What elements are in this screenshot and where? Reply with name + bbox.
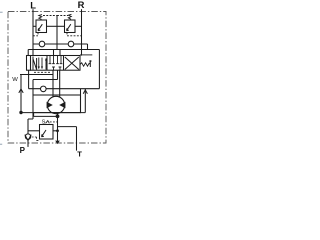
- svg-text:R: R: [78, 0, 85, 10]
- node: junction dot at (57.5,130.8): [56, 129, 59, 132]
- wire: V1 left port: [33, 25, 36, 27]
- wire: valve S left port: [28, 130, 40, 132]
- relief valve V1 spring: [39, 15, 42, 20]
- relief valve V2 body: [65, 20, 76, 33]
- svg-text:S: S: [42, 120, 46, 126]
- wire: center vertical node line x=57: [56, 16, 58, 50]
- wire: hang line x=85.3 with flow arrow: [84, 89, 86, 113]
- wire: bottom manifold y=112.6: [21, 112, 85, 114]
- wire: V2 right port: [75, 25, 82, 27]
- wire: motor feed line A x=53: [52, 70, 54, 97]
- node: junction dot at (21,112.6): [19, 111, 22, 114]
- motor triangle left: [47, 102, 53, 108]
- wire: link x=87.5 between y44 and y49.5: [87, 44, 89, 50]
- DV right box crossed arrows: [65, 57, 79, 70]
- DV drain dashes below body: [34, 71, 51, 73]
- DV middle box blocked ports comb: [50, 56, 61, 64]
- motor triangle right: [59, 102, 65, 108]
- wire stub at left image edge bottom: [0, 143, 2, 145]
- svg-text:T: T: [77, 149, 82, 158]
- node: junction dot at (57.5,116.4): [56, 114, 60, 118]
- wire: T branch: [58, 127, 77, 151]
- wire: P line through boundary: [27, 141, 29, 147]
- orifice O2: [68, 41, 74, 47]
- relief valve V1 pilot line (dashed, to center): [43, 15, 57, 17]
- wire: P riser jog: [28, 113, 33, 135]
- directional valve DV box divider 1: [46, 56, 48, 71]
- drain arrow down: [55, 141, 60, 145]
- orifice O3: [41, 86, 47, 92]
- svg-text:W: W: [12, 77, 18, 83]
- valve S pilot dashed to x=57.5: [50, 121, 58, 123]
- valve S drain pilot dashed (lower left): [32, 137, 40, 141]
- directional valve DV main body: [31, 56, 81, 71]
- orifice O1: [39, 41, 45, 47]
- svg-text:L: L: [30, 0, 36, 11]
- valve S spring: [46, 121, 50, 124]
- wire: hang line x=80.5: [80, 89, 82, 113]
- wire: left cap drain to shuttle: [28, 70, 30, 89]
- wire: cross line y=44: [33, 43, 88, 45]
- wire: case drain sub line y=116.4: [34, 113, 58, 117]
- wire: valve top port stub B: [59, 50, 61, 56]
- relief valve V1 internal arrow: [38, 24, 42, 30]
- motor M circle: [47, 96, 64, 113]
- enclosure boundary (dash-dot frame): [8, 12, 106, 144]
- wire: pilot rail y=49.5: [28, 49, 99, 51]
- wire: L line vertical x=33: [32, 9, 34, 55]
- relief valve V2 pilot line (dashed, to center): [57, 15, 68, 17]
- flow arrow on x=85.3: [83, 90, 87, 94]
- wire: W drop vertical x=21 with flow arrow: [20, 75, 22, 113]
- wire: valve S right port: [53, 130, 58, 132]
- relief valve V2 internal arrow: [67, 24, 71, 30]
- wire: R line vertical x=81.5: [81, 9, 83, 55]
- wire: W drain line: [20, 74, 53, 76]
- wire: valve top port stub A: [53, 50, 55, 56]
- wire: V1 right port: [47, 25, 58, 27]
- flow arrow on W line: [19, 89, 23, 93]
- DV left box check symbol: [33, 57, 37, 70]
- valve S internal arrow: [42, 130, 47, 137]
- DV spring end bar: [89, 61, 91, 68]
- flushing relief valve S body: [40, 125, 54, 140]
- wire: valve bottom port to tee x=57.5: [57, 70, 59, 79]
- wire stub at left image edge top: [0, 11, 3, 13]
- relief valve V2 drain pilot (dashed to R line): [67, 33, 82, 36]
- check valve ball: [25, 134, 30, 139]
- wire: motor feed line B x=59.7: [59, 70, 61, 97]
- check valve seat: [25, 135, 31, 141]
- directional valve DV box divider 2: [63, 56, 65, 71]
- wire: tee line y=79.5: [33, 79, 58, 81]
- DV left box flow arrows: [39, 58, 46, 70]
- wire: flushing drop x=57.5: [57, 113, 59, 141]
- svg-text:P: P: [20, 146, 26, 155]
- DV spring cap top line: [80, 54, 92, 56]
- wire: V2 left port: [57, 25, 65, 27]
- wire: right pilot drop x=99.4: [98, 50, 100, 89]
- relief valve V1 body: [36, 20, 47, 33]
- DV spring (right): [80, 63, 90, 66]
- motor housing box: [33, 95, 81, 113]
- relief valve V1 drain pilot (dashed to L line): [33, 33, 38, 36]
- relief valve V2 spring: [68, 14, 71, 19]
- wire: pilot drop into valve left cap: [27, 50, 29, 56]
- wire: housing left edge extension: [32, 80, 34, 96]
- wire: shuttle line y=88.7: [29, 88, 100, 90]
- directional valve DV left pilot cap: [27, 56, 31, 71]
